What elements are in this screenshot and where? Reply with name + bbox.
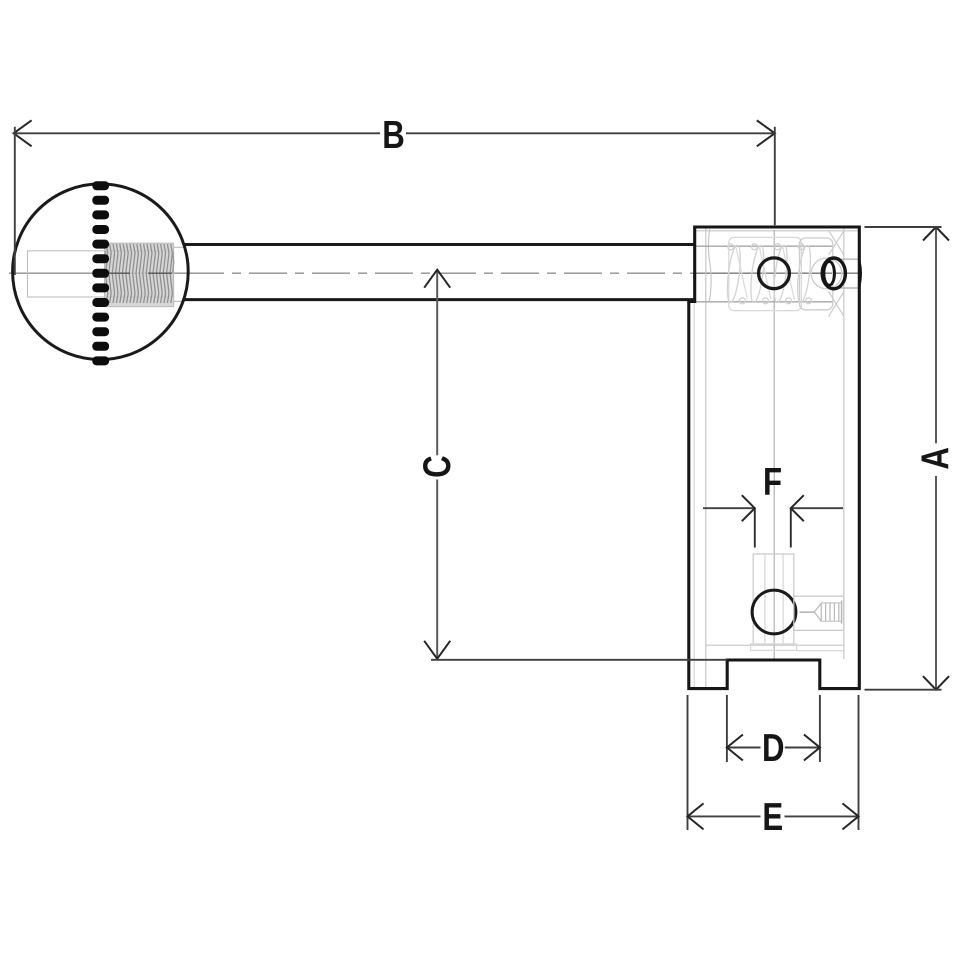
inner left wall	[705, 228, 707, 689]
dimension F right arrowhead (inward)	[791, 495, 804, 521]
spring coils	[725, 244, 813, 304]
svg-text:D: D	[762, 727, 785, 770]
clamp hole bold circle	[752, 590, 796, 634]
wire cross-section dots	[728, 244, 734, 250]
thread texture backdrop	[105, 243, 174, 306]
dimension B left extension line	[14, 127, 16, 275]
lower slot light rect	[751, 554, 797, 650]
dimension A top extension line	[865, 226, 942, 228]
center vertical gray line of block	[773, 230, 775, 659]
dimension A bottom extension line	[865, 689, 942, 691]
dimension E left arrowhead	[688, 803, 704, 829]
dimension C bottom extension line	[431, 659, 727, 661]
dimension E right arrowhead	[843, 803, 859, 829]
inner top line	[695, 230, 859, 232]
dimension B right extension line	[774, 127, 776, 226]
svg-text:E: E	[762, 796, 783, 839]
pin shaft lines through wall	[833, 259, 859, 288]
dimension A top arrowhead	[923, 227, 949, 241]
dimension A line	[935, 227, 937, 690]
block body outline	[689, 227, 860, 689]
svg-text:A: A	[914, 447, 957, 470]
thread centerline dark dashes	[106, 272, 172, 274]
plunger housing rounded outline	[800, 238, 833, 310]
spring cavity top/bottom lines	[696, 246, 834, 302]
cavity bottom lines	[706, 644, 844, 646]
detent pin bold ellipse outer	[822, 258, 845, 289]
dimension B line	[14, 132, 775, 134]
dimension D right arrowhead	[804, 735, 820, 761]
dimension F left arrowhead (inward)	[742, 495, 755, 521]
block inner light structure	[694, 228, 858, 689]
dimension E extension lines	[688, 695, 859, 830]
thread outer rectangle inside ball	[105, 243, 174, 306]
bore wavy line	[708, 229, 711, 302]
screw core rectangle inside ball	[28, 251, 173, 297]
dimension D line	[727, 747, 820, 749]
dimension C top arrowhead	[424, 270, 450, 288]
pivot hole bold circle	[759, 258, 790, 289]
X chamfer marks near right wall	[829, 231, 844, 317]
dimension E line	[688, 815, 859, 817]
dimension D extension lines	[727, 695, 820, 762]
handle arm outline	[184, 245, 695, 300]
knurl dash band on ball	[92, 181, 109, 365]
dimension F extension stubs	[755, 508, 791, 547]
thread texture (screw thread hatch)	[105, 244, 174, 303]
detent pin bold ellipse inner	[824, 262, 835, 286]
svg-text:C: C	[416, 455, 459, 478]
dimension C bottom arrowhead	[424, 641, 450, 659]
spring cavity rounded outline	[729, 237, 802, 310]
screw hole rect	[794, 596, 844, 630]
inner right wall	[843, 228, 845, 660]
centerline horizontal (ball + handle + block)	[9, 272, 859, 274]
ball knob circle	[13, 184, 189, 360]
svg-text:B: B	[382, 114, 405, 157]
dimension C line	[436, 270, 438, 659]
detent ball light circle	[811, 258, 842, 289]
right edge bulge	[859, 262, 860, 286]
hidden left face lower	[693, 302, 695, 688]
neck lines between thread and handle	[173, 247, 185, 301]
dimension B left arrowhead	[14, 120, 32, 146]
dimension B right arrowhead	[757, 120, 775, 146]
set screw threads	[800, 601, 842, 624]
dimension A bottom arrowhead	[923, 676, 949, 690]
dimension F lines	[703, 507, 843, 509]
dimension D left arrowhead	[727, 735, 743, 761]
svg-text:F: F	[763, 461, 782, 504]
